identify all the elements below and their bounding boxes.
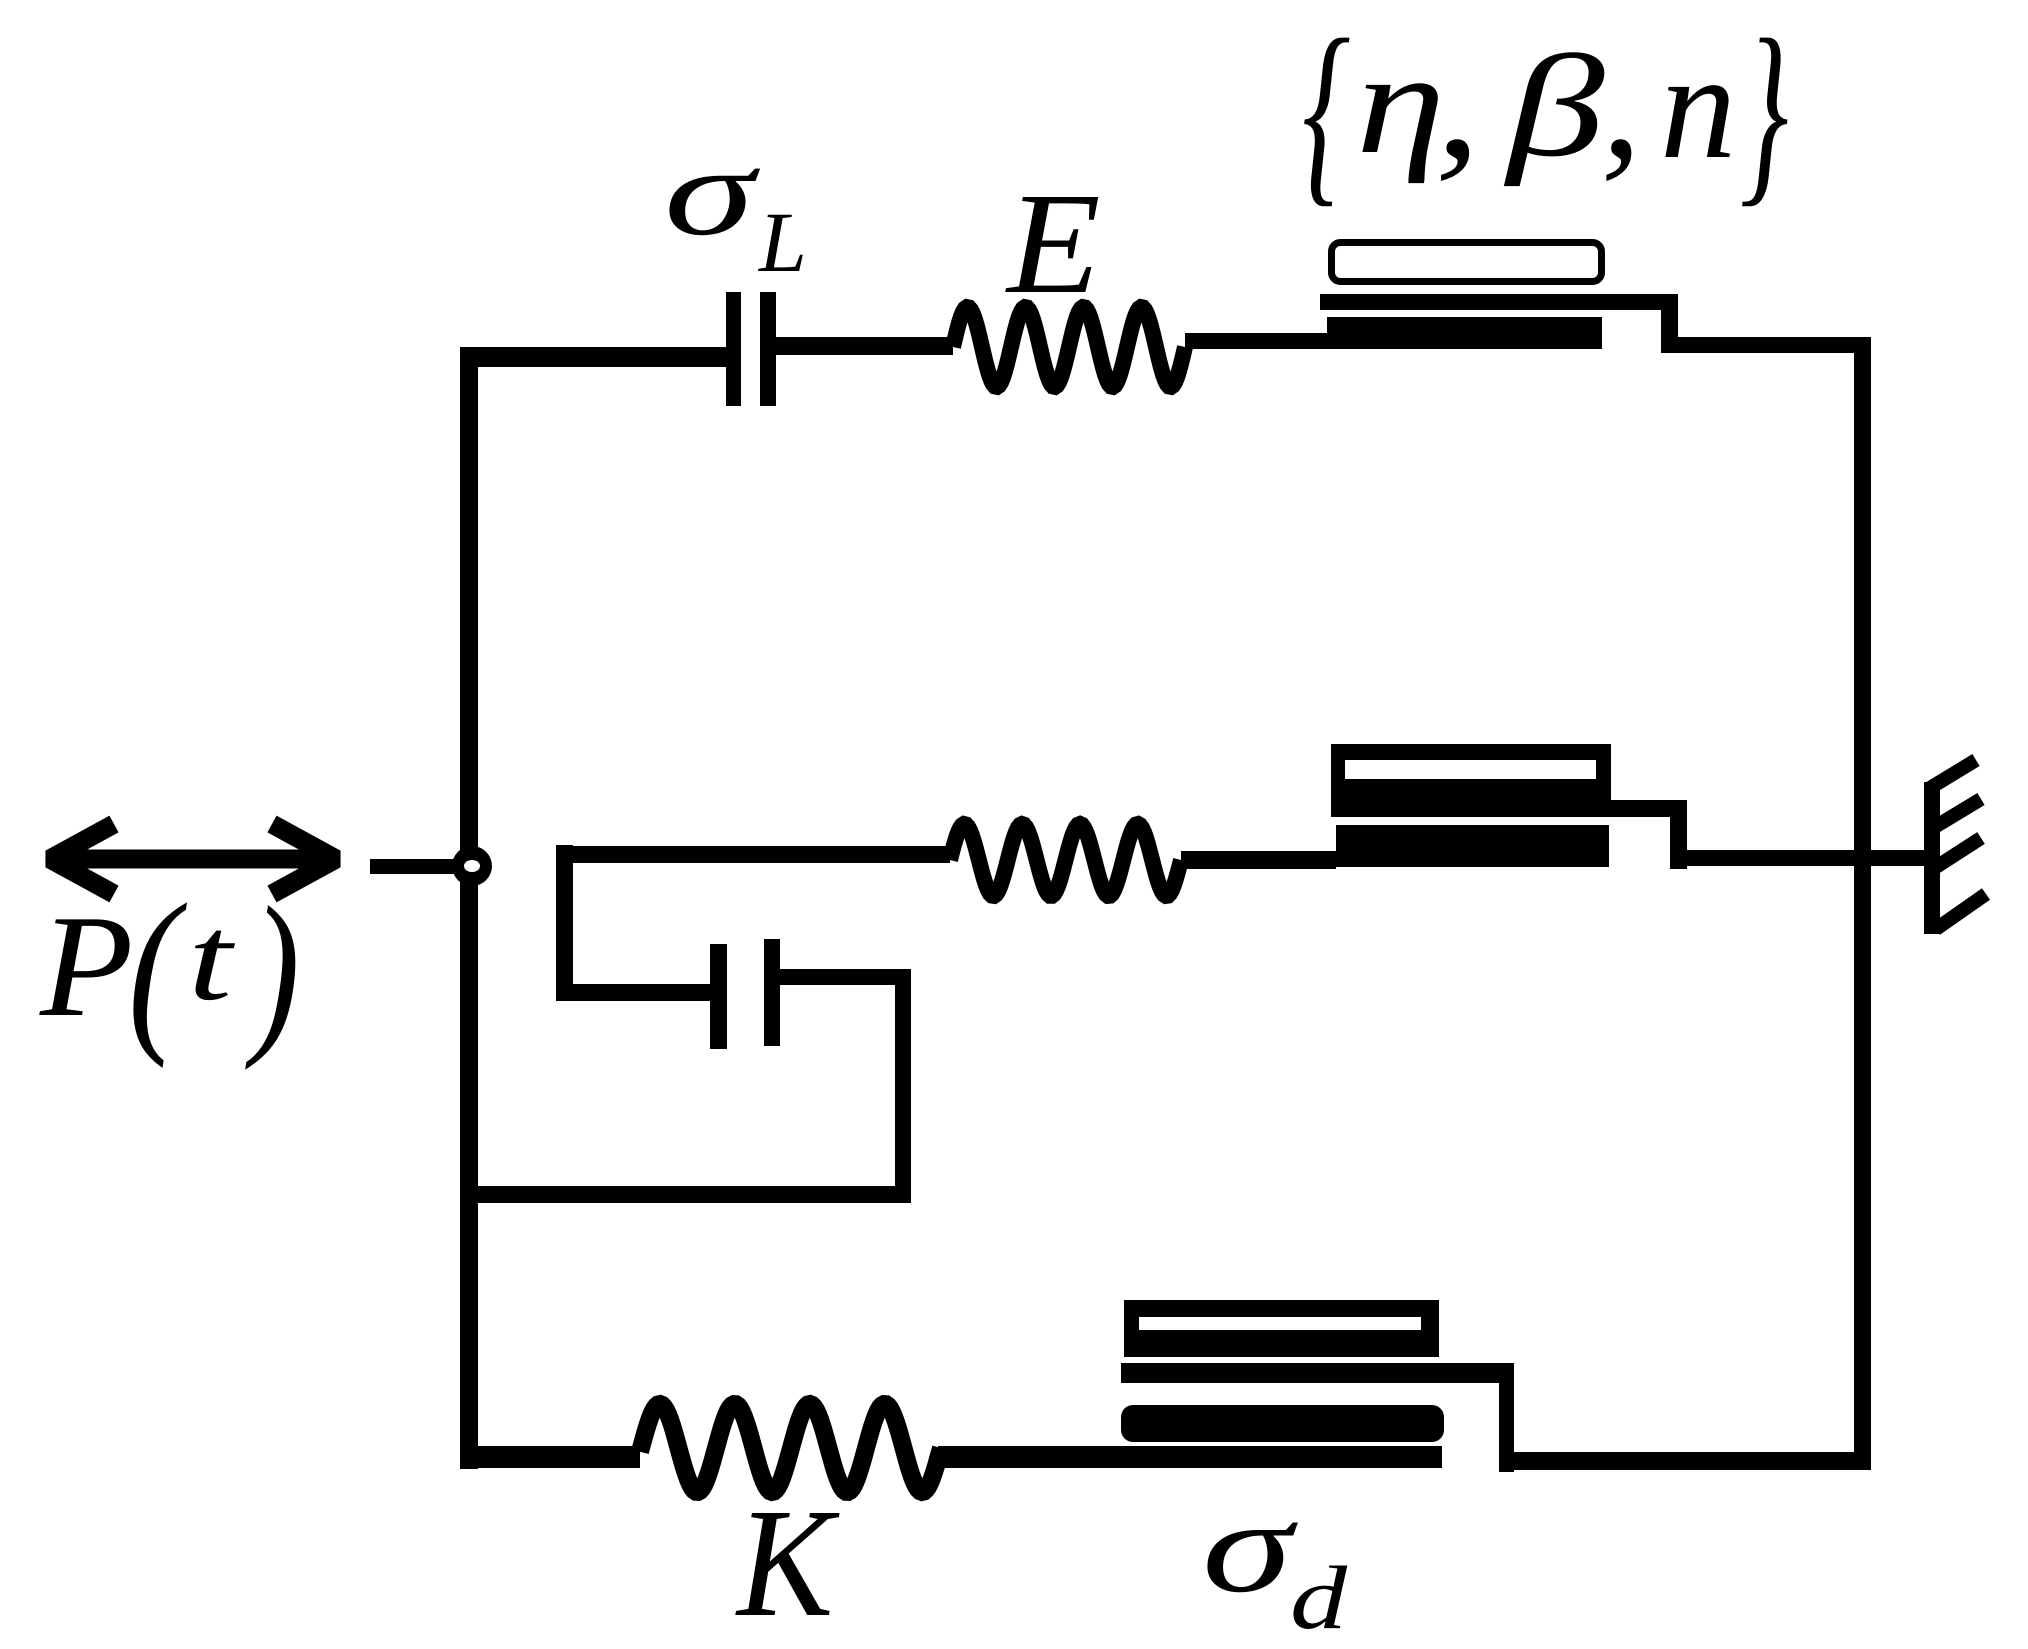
capacitor sigma_L plates (726, 292, 741, 406)
wire bottom branch to right bus (1514, 1452, 1871, 1470)
middle slider: step bar (1609, 800, 1687, 817)
middle slider: friction pad (1336, 825, 1609, 867)
capacitor loop right wire (780, 969, 911, 985)
middle slider: step down (1670, 800, 1687, 869)
svg-text:η: η (1356, 23, 1445, 184)
svg-text:L: L (757, 194, 807, 290)
wire capacitor to spring E (776, 337, 953, 355)
svg-text:d: d (1290, 1548, 1348, 1648)
wire from arrow to node (370, 859, 454, 874)
ground wall hatches (1930, 760, 1986, 929)
svg-text:n: n (1660, 21, 1736, 190)
svg-text:σ: σ (1202, 1473, 1298, 1620)
svg-text:E: E (1005, 164, 1101, 324)
svg-text:t: t (188, 892, 235, 1026)
slider eta-beta-n: surface bar (1320, 294, 1678, 310)
slider eta-beta-n: top plate outline (1332, 243, 1602, 282)
svg-text:,: , (1601, 12, 1642, 192)
wire spring E to slider (1185, 333, 1327, 349)
svg-text:{: { (1302, 0, 1350, 224)
wire spring K to slider (938, 1446, 1442, 1468)
wire middle spring to slider (1181, 851, 1336, 869)
middle slider: plate block with slot (1331, 744, 1611, 817)
middle branch wire (556, 846, 950, 863)
svg-text:}: } (1740, 0, 1788, 224)
capacitor loop left wire (556, 984, 710, 1001)
bottom slider sigma_d: surface bar (1121, 1363, 1514, 1383)
svg-text:K: K (735, 1477, 840, 1649)
wire vertical drop to capacitor loop (556, 845, 573, 1001)
left bus wire (460, 347, 478, 1469)
bottom slider sigma_d: plate block with slot (1124, 1300, 1439, 1357)
slider eta-beta-n: step down (1661, 294, 1678, 353)
capacitor C2 plates (710, 944, 727, 1049)
svg-text:(: ( (128, 868, 187, 1069)
wire middle branch to wall (1687, 850, 1932, 866)
bottom slider sigma_d: step down (1499, 1363, 1514, 1472)
spring K zigzag (640, 1404, 941, 1492)
capacitor loop right vertical wire (895, 969, 911, 1203)
svg-text:): ) (245, 870, 300, 1071)
top branch wire left (460, 347, 726, 367)
bottom branch wire left (460, 1446, 640, 1468)
bottom slider sigma_d: friction pad (1121, 1405, 1444, 1442)
svg-text:β: β (1504, 26, 1605, 187)
load arrow P(t) double-headed (50, 824, 336, 894)
middle spring zigzag (950, 824, 1181, 896)
svg-text:P: P (39, 886, 133, 1047)
capacitor loop bottom return wire (460, 1186, 911, 1203)
right bus wire (1854, 337, 1871, 1470)
ground wall line (1924, 782, 1940, 934)
node junction pin (open dot) (452, 846, 492, 886)
wire slider to right bus (1678, 337, 1871, 353)
svg-text:σ: σ (664, 122, 760, 262)
svg-text:,: , (1435, 12, 1481, 191)
slider eta-beta-n: friction pad (1327, 317, 1602, 349)
spring E zigzag (953, 307, 1185, 387)
